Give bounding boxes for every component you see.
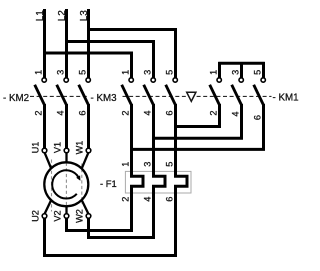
svg-text:5: 5	[164, 162, 174, 167]
svg-text:1: 1	[120, 70, 130, 75]
svg-text:V1: V1	[53, 142, 63, 153]
svg-text:3: 3	[230, 70, 240, 75]
svg-text:L1: L1	[35, 10, 46, 22]
svg-text:5: 5	[252, 70, 262, 75]
svg-text:- F1: - F1	[100, 178, 117, 189]
svg-text:4: 4	[55, 110, 65, 115]
svg-text:6: 6	[164, 110, 174, 115]
svg-text:3: 3	[142, 70, 152, 75]
svg-text:5: 5	[164, 70, 174, 75]
svg-text:4: 4	[142, 110, 152, 115]
svg-text:L3: L3	[79, 10, 90, 22]
svg-text:- KM2: - KM2	[3, 93, 29, 104]
svg-text:6: 6	[77, 110, 87, 115]
svg-text:W1: W1	[75, 141, 85, 155]
svg-text:6: 6	[164, 197, 174, 202]
svg-text:5: 5	[77, 70, 87, 75]
svg-text:2: 2	[120, 110, 130, 115]
svg-text:3: 3	[55, 70, 65, 75]
svg-text:4: 4	[230, 111, 240, 116]
svg-text:V2: V2	[53, 210, 63, 221]
svg-text:L2: L2	[57, 10, 68, 22]
svg-text:2: 2	[208, 110, 218, 115]
svg-text:2: 2	[33, 110, 43, 115]
svg-text:W2: W2	[75, 209, 85, 223]
svg-text:U2: U2	[31, 210, 41, 222]
svg-text:1: 1	[33, 70, 43, 75]
svg-text:3: 3	[142, 162, 152, 167]
svg-text:- KM3: - KM3	[91, 93, 118, 104]
svg-text:6: 6	[252, 115, 262, 120]
svg-text:- KM1: - KM1	[273, 92, 299, 103]
svg-text:4: 4	[142, 197, 152, 202]
svg-text:1: 1	[120, 162, 130, 167]
svg-text:2: 2	[120, 197, 130, 202]
svg-text:U1: U1	[31, 142, 41, 154]
svg-text:1: 1	[208, 70, 218, 75]
